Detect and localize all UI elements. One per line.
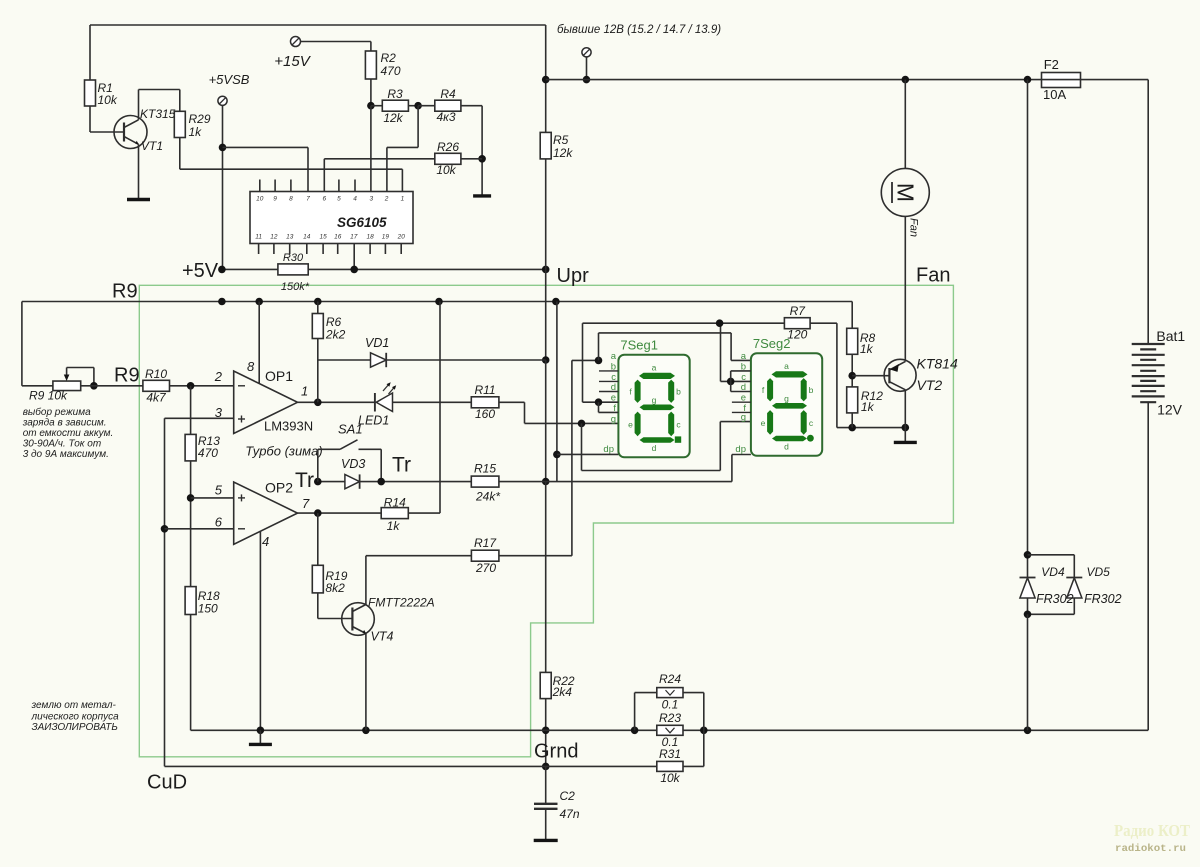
svg-text:VD4: VD4 [1041, 565, 1065, 579]
svg-text:b: b [611, 361, 616, 372]
svg-text:d: d [784, 442, 789, 452]
svg-text:+5V: +5V [182, 260, 219, 282]
svg-text:470: 470 [198, 446, 218, 460]
svg-text:F2: F2 [1044, 57, 1059, 72]
svg-text:Tr: Tr [392, 454, 411, 477]
svg-text:выбор режима: выбор режима [23, 406, 91, 418]
svg-text:4: 4 [353, 196, 357, 203]
svg-text:R3: R3 [387, 87, 403, 101]
svg-text:OP2: OP2 [265, 480, 293, 496]
svg-text:b: b [809, 385, 814, 395]
svg-text:12: 12 [270, 234, 278, 241]
svg-text:12k: 12k [553, 146, 573, 160]
svg-text:10A: 10A [1043, 87, 1066, 102]
svg-text:47n: 47n [560, 807, 580, 821]
svg-text:6: 6 [215, 515, 223, 530]
svg-text:2k2: 2k2 [325, 328, 346, 342]
svg-text:radiokot.ru: radiokot.ru [1115, 843, 1186, 855]
svg-text:R23: R23 [659, 711, 681, 725]
svg-text:7: 7 [306, 196, 310, 203]
svg-text:1: 1 [401, 196, 405, 203]
svg-text:7Seg2: 7Seg2 [753, 336, 791, 351]
svg-text:2: 2 [384, 196, 389, 203]
svg-text:R11: R11 [474, 383, 495, 397]
svg-text:120: 120 [787, 328, 807, 342]
svg-text:KT814: KT814 [917, 356, 958, 372]
svg-text:R26: R26 [437, 140, 459, 154]
svg-text:KT315: KT315 [140, 107, 176, 121]
svg-text:8: 8 [289, 196, 293, 203]
svg-text:g: g [784, 393, 789, 403]
svg-text:10: 10 [256, 196, 264, 203]
svg-text:3: 3 [369, 196, 373, 203]
svg-text:Fan: Fan [908, 218, 920, 237]
svg-text:Tr: Tr [295, 469, 314, 492]
svg-text:SA1: SA1 [338, 422, 363, 437]
svg-text:R24: R24 [659, 672, 681, 686]
svg-text:R15: R15 [474, 462, 496, 476]
svg-text:470: 470 [381, 64, 401, 78]
svg-text:1k: 1k [861, 400, 875, 414]
svg-text:12V: 12V [1157, 402, 1183, 418]
svg-text:g: g [652, 395, 657, 405]
svg-text:LM393N: LM393N [264, 419, 313, 434]
svg-text:11: 11 [255, 234, 262, 241]
svg-text:0.1: 0.1 [662, 698, 679, 712]
svg-text:Grnd: Grnd [534, 741, 578, 763]
svg-text:R9: R9 [112, 281, 138, 303]
svg-text:1k: 1k [860, 342, 874, 356]
svg-text:ЗАИЗОЛИРОВАТЬ: ЗАИЗОЛИРОВАТЬ [32, 722, 118, 733]
svg-text:VD5: VD5 [1087, 565, 1111, 579]
svg-text:13: 13 [286, 234, 294, 241]
svg-text:16: 16 [334, 234, 342, 241]
svg-text:5: 5 [215, 483, 223, 498]
svg-text:30-90А/ч. Ток от: 30-90А/ч. Ток от [23, 439, 102, 450]
svg-text:Турбо (зима): Турбо (зима) [245, 444, 322, 459]
svg-text:VD1: VD1 [365, 336, 389, 350]
svg-text:от емкости аккум.: от емкости аккум. [23, 428, 114, 439]
svg-text:d: d [652, 443, 657, 453]
svg-text:R14: R14 [384, 496, 406, 510]
svg-text:Fan: Fan [916, 265, 950, 287]
svg-text:7Seg1: 7Seg1 [620, 338, 658, 353]
svg-text:160: 160 [475, 407, 495, 421]
svg-text:150: 150 [198, 602, 218, 616]
svg-text:19: 19 [382, 234, 390, 241]
svg-text:CuD: CuD [147, 772, 187, 794]
svg-text:2: 2 [214, 369, 223, 384]
svg-text:C2: C2 [560, 789, 576, 803]
svg-text:Радио КОТ: Радио КОТ [1114, 821, 1191, 840]
svg-text:R7: R7 [790, 304, 807, 318]
svg-text:b: b [676, 387, 681, 397]
svg-text:14: 14 [303, 234, 311, 241]
svg-text:15: 15 [319, 234, 327, 241]
svg-text:R4: R4 [440, 87, 456, 101]
svg-text:20: 20 [397, 234, 406, 241]
svg-text:лического корпуса: лического корпуса [31, 712, 120, 723]
svg-text:2k4: 2k4 [552, 685, 573, 699]
svg-text:R10: R10 [145, 367, 167, 381]
svg-text:1k: 1k [189, 125, 203, 139]
svg-text:R9 10k: R9 10k [29, 389, 68, 403]
svg-text:8k2: 8k2 [325, 581, 345, 595]
svg-text:1k: 1k [387, 519, 401, 533]
svg-text:4: 4 [262, 534, 269, 549]
svg-text:R2: R2 [381, 51, 397, 65]
svg-text:4k7: 4k7 [146, 391, 167, 405]
svg-text:R30: R30 [283, 252, 304, 264]
svg-text:R29: R29 [189, 112, 211, 126]
svg-text:R9: R9 [114, 365, 140, 387]
svg-text:VD3: VD3 [341, 457, 365, 471]
svg-text:заряда в зависим.: заряда в зависим. [22, 418, 107, 429]
svg-text:8: 8 [247, 359, 255, 374]
svg-text:17: 17 [350, 234, 358, 241]
svg-text:7: 7 [302, 496, 310, 511]
svg-text:VT2: VT2 [917, 377, 943, 393]
svg-text:LED1: LED1 [358, 414, 389, 428]
svg-text:+5VSB: +5VSB [209, 72, 250, 87]
svg-text:R17: R17 [474, 536, 497, 550]
svg-text:бывшие 12В (15.2 / 14.7 / 13.9: бывшие 12В (15.2 / 14.7 / 13.9) [557, 24, 721, 36]
svg-text:землю от метал-: землю от метал- [31, 700, 117, 711]
svg-text:OP1: OP1 [265, 368, 293, 384]
svg-text:dp: dp [603, 444, 614, 455]
svg-text:6: 6 [322, 196, 326, 203]
svg-text:+15V: +15V [274, 53, 311, 70]
svg-text:g: g [741, 412, 746, 423]
svg-text:150k*: 150k* [281, 281, 310, 293]
svg-text:270: 270 [475, 561, 496, 575]
svg-text:FR302: FR302 [1084, 592, 1122, 606]
svg-text:a: a [652, 363, 657, 373]
svg-text:d: d [611, 382, 616, 393]
svg-text:a: a [611, 351, 617, 362]
svg-text:R31: R31 [659, 747, 681, 761]
svg-text:10k: 10k [98, 93, 118, 107]
svg-text:e: e [628, 420, 633, 430]
svg-text:10k: 10k [436, 163, 456, 177]
svg-text:e: e [761, 418, 766, 428]
svg-text:a: a [741, 351, 747, 362]
svg-text:4к3: 4к3 [436, 110, 455, 124]
svg-text:g: g [611, 414, 616, 425]
svg-text:FR302: FR302 [1036, 592, 1074, 606]
svg-text:FMTT2222A: FMTT2222A [368, 596, 435, 610]
svg-text:SG6105: SG6105 [337, 215, 387, 230]
svg-text:dp: dp [735, 444, 746, 455]
svg-text:10k: 10k [660, 771, 680, 785]
svg-text:1: 1 [301, 384, 308, 399]
svg-text:3 до 9А максимум.: 3 до 9А максимум. [23, 449, 109, 460]
svg-text:9: 9 [273, 196, 277, 203]
svg-text:12k: 12k [383, 111, 403, 125]
svg-text:24k*: 24k* [475, 490, 500, 504]
svg-text:R5: R5 [553, 133, 569, 147]
svg-text:M: M [893, 183, 919, 202]
svg-text:VT4: VT4 [371, 630, 394, 644]
svg-text:18: 18 [366, 234, 374, 241]
svg-text:Bat1: Bat1 [1156, 328, 1185, 344]
svg-text:Upr: Upr [557, 265, 590, 287]
svg-text:5: 5 [337, 196, 341, 203]
svg-text:a: a [784, 361, 789, 371]
svg-text:VT1: VT1 [141, 139, 163, 153]
